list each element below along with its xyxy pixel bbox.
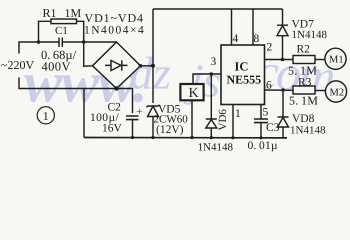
wire: C2 bottom to ground rail <box>132 120 134 138</box>
wire: pin8 riser <box>252 9 254 45</box>
wire: supply vertical (top rail riser / VD5 branch) <box>152 9 154 103</box>
wire: R1 parallel branch left vertical <box>39 21 52 42</box>
wire: AC bottom lead from 220V terminal <box>19 78 117 89</box>
svg-text:R2: R2 <box>297 44 311 56</box>
bridge inner diode symbol <box>105 60 128 70</box>
bridge rectifier VD1~VD4 diamond <box>93 42 141 89</box>
svg-text:1N4004×4: 1N4004×4 <box>84 25 145 37</box>
wire: R1 branch right side <box>77 21 84 42</box>
junction: C3 on ground rail <box>259 136 262 139</box>
svg-text:1N4148: 1N4148 <box>198 142 234 154</box>
svg-text:8: 8 <box>254 33 260 45</box>
resistor R3 body <box>293 86 315 94</box>
diode VD7 <box>277 25 288 36</box>
capacitor C1 plates <box>59 38 62 48</box>
ground rail <box>84 137 287 139</box>
svg-text:VD8: VD8 <box>292 113 315 125</box>
capacitor C2 plates <box>126 116 139 120</box>
svg-text:6: 6 <box>266 80 272 92</box>
svg-text:VD1~VD4: VD1~VD4 <box>85 11 144 25</box>
junction: C2 on ground rail <box>131 136 134 139</box>
svg-text:3: 3 <box>211 56 217 68</box>
svg-text:dz: dz <box>130 48 171 99</box>
junction: R1/C1 left node <box>37 40 41 44</box>
wire: VD5 anode to ground rail <box>152 117 154 138</box>
resistor R2 body <box>293 56 315 64</box>
svg-text:NE555: NE555 <box>227 73 262 87</box>
wire: AC neutral drop to ground rail <box>83 89 85 138</box>
wire: R2 to M1 <box>315 59 325 61</box>
wire: C3 bottom to ground rail <box>260 123 262 138</box>
junction: bridge right vertex <box>139 64 143 68</box>
junction: VD6 on ground rail <box>210 136 213 139</box>
wire: VD6 anode to ground rail <box>210 128 212 138</box>
svg-text:C3: C3 <box>266 122 280 134</box>
junction: VD5 on ground rail <box>151 136 154 139</box>
wire: R3 to M2 <box>315 90 326 92</box>
wire: C1 output node down and into bridge left vertex <box>84 42 93 66</box>
wire: bridge output right vertex to supply node <box>141 65 154 67</box>
svg-text:2: 2 <box>267 42 273 54</box>
diode VD6 <box>206 119 217 128</box>
wire: VD7 anode to pin2 node <box>282 36 284 60</box>
wire: pin6 to R3 <box>265 89 294 91</box>
wire: pin2 to R2 <box>265 59 294 61</box>
svg-text:M1: M1 <box>329 55 344 66</box>
wire: pin4 riser <box>231 9 233 45</box>
circled number 1 <box>37 107 54 124</box>
wire: VD7 branch from top rail <box>282 9 284 25</box>
svg-text:5: 5 <box>263 107 269 119</box>
junction: pin6 / VD8 node <box>281 88 285 92</box>
svg-text:16V: 16V <box>102 123 123 135</box>
wire: pin5 to C3 <box>260 105 262 120</box>
svg-text:K: K <box>189 86 199 101</box>
wire: VD8 anode to ground rail <box>282 127 284 138</box>
svg-text:R3: R3 <box>298 77 312 89</box>
svg-text:1: 1 <box>235 108 241 120</box>
resistor R1 body <box>51 19 77 24</box>
junction: pin1 on ground rail <box>231 136 234 139</box>
svg-text:400V: 400V <box>42 60 71 74</box>
svg-text:C1: C1 <box>55 25 68 37</box>
svg-text:1M: 1M <box>65 6 82 20</box>
svg-text:+: + <box>136 106 142 118</box>
svg-text:IC: IC <box>235 60 249 74</box>
wire: bottom vertex to C2 branch corner <box>117 89 133 114</box>
relay K body <box>180 84 203 100</box>
svg-text:0. 01µ: 0. 01µ <box>248 140 278 152</box>
wire: pin3 to K and VD6 <box>193 74 221 86</box>
wire: C1 right to bridge top vertex <box>63 41 117 43</box>
motor M2 <box>325 81 346 102</box>
motor M1 <box>325 48 346 69</box>
junction: K on ground rail <box>190 136 193 139</box>
wire: VD8 branch from pin6 node <box>282 90 284 117</box>
junction: C1 output node <box>82 40 86 44</box>
svg-text:1N4148: 1N4148 <box>292 29 328 41</box>
svg-text:1: 1 <box>43 109 49 123</box>
wire: VD6 branch vertical <box>210 74 212 119</box>
junction: bridge bottom vertex / AC neutral node <box>114 86 118 90</box>
wire: pin1 to ground rail <box>232 105 234 138</box>
junction: DC supply node at VD5 <box>151 64 155 68</box>
svg-text:1N4148: 1N4148 <box>290 125 326 137</box>
svg-text:M2: M2 <box>330 88 345 99</box>
svg-text:R1: R1 <box>43 6 57 20</box>
IC NE555 body <box>221 45 265 105</box>
svg-text:5. 1M: 5. 1M <box>289 94 318 108</box>
svg-text:4: 4 <box>233 33 239 45</box>
svg-text:~220V: ~220V <box>1 58 34 72</box>
svg-text:VD6: VD6 <box>217 109 229 131</box>
svg-text:(12V): (12V) <box>156 124 184 136</box>
svg-text:5. 1M: 5. 1M <box>288 64 317 78</box>
diode VD8 <box>278 117 289 127</box>
wire: K bottom to ground rail <box>191 100 193 137</box>
zener diode VD5 (2CW60) <box>147 105 160 117</box>
top rail <box>153 8 283 10</box>
capacitor C3 plates <box>254 119 268 123</box>
junction: pin3 / VD6 node <box>210 72 214 76</box>
junction: pin2 / VD7 node <box>281 58 285 62</box>
watermark <box>24 42 337 114</box>
wire: AC top lead from 220V terminal <box>19 42 59 54</box>
